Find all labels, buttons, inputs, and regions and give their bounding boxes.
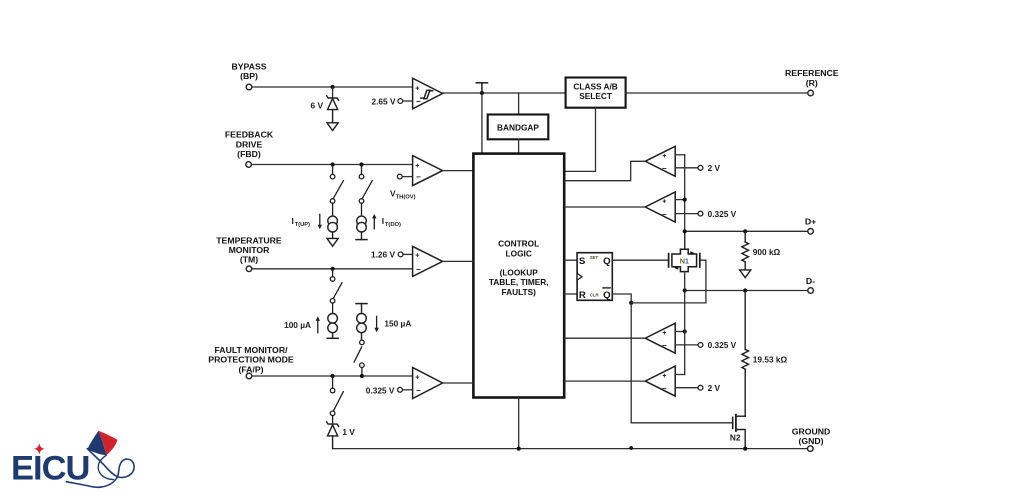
comparator U2 FBD xyxy=(413,156,443,186)
svg-text:R: R xyxy=(579,290,586,301)
resistor R1 900k xyxy=(742,231,749,269)
wire D- sense bus lower xyxy=(684,291,686,375)
svg-text:I: I xyxy=(382,216,384,226)
svg-text:(R): (R) xyxy=(806,78,818,88)
comparator U8 (0.325V D-) xyxy=(645,323,675,353)
wire 0.325V to comparator minus xyxy=(402,389,412,391)
node 1.26V source terminal xyxy=(398,252,403,257)
svg-text:−: − xyxy=(416,173,421,182)
junction control logic ground xyxy=(517,447,521,451)
block BANDGAP xyxy=(488,115,549,140)
svg-text:MONITOR: MONITOR xyxy=(229,245,271,255)
wire bandgap tap xyxy=(518,93,520,115)
svg-text:(TM): (TM) xyxy=(240,255,258,265)
zener diode VR2 1V xyxy=(327,422,339,449)
value label IT(UP) xyxy=(292,216,311,228)
svg-text:DRIVE: DRIVE xyxy=(236,139,263,149)
pin D- terminal xyxy=(808,288,814,294)
node BYPASS (BP) pin label xyxy=(231,62,266,82)
block CLASS A/B SELECT xyxy=(566,78,626,108)
svg-text:T(UP): T(UP) xyxy=(295,222,311,228)
svg-text:CLASS A/B: CLASS A/B xyxy=(573,81,617,91)
junction D+ sense bus xyxy=(683,229,687,233)
svg-text:FAULTS): FAULTS) xyxy=(501,287,536,297)
node FAULT MONITOR (FA/P) pin label xyxy=(208,345,294,374)
svg-text:1.26 V: 1.26 V xyxy=(371,250,395,260)
switch S5 xyxy=(330,376,343,424)
svg-text:BANDGAP: BANDGAP xyxy=(497,123,539,133)
supply rail tick above node A xyxy=(476,83,487,93)
node VTH(OV) source terminal xyxy=(397,174,402,179)
switch S1 xyxy=(330,165,343,217)
svg-text:T(DO): T(DO) xyxy=(385,222,401,228)
node FEEDBACK DRIVE (FBD) pin label xyxy=(225,130,274,159)
wire gate bus down to N2 xyxy=(631,303,733,423)
wire U6 plus to sense bus xyxy=(675,154,685,156)
wire U9 output to control logic xyxy=(565,380,645,382)
wire U6 minus stub xyxy=(675,167,698,169)
svg-text:+: + xyxy=(415,374,419,381)
comparator U9 (2V D-) xyxy=(645,366,675,396)
wire U8 minus stub xyxy=(675,344,698,346)
wire CLASS A/B select down to control logic xyxy=(565,108,596,172)
junction FA/P-switch S5 xyxy=(331,374,335,378)
svg-text:+: + xyxy=(662,330,666,337)
current source 150uA xyxy=(357,314,367,341)
node GROUND (GND) pin label xyxy=(792,426,831,446)
wire U8 plus to sense bus xyxy=(675,331,685,333)
svg-text:−: − xyxy=(416,386,421,395)
transistor N1 bilateral switch xyxy=(669,249,700,271)
node TEMPERATURE MONITOR (TM) pin label xyxy=(216,235,282,264)
wire U2 output to control logic xyxy=(443,170,473,172)
wire latch Qbar down to gate bus xyxy=(612,294,631,303)
svg-text:SET: SET xyxy=(590,255,599,260)
arrow IT(UP) down xyxy=(318,214,322,229)
current source IT(DO) xyxy=(356,216,367,240)
junction D- sense bus xyxy=(683,288,687,292)
svg-text:(GND): (GND) xyxy=(798,436,823,446)
svg-text:CONTROL: CONTROL xyxy=(498,239,539,249)
junction N2 source ground xyxy=(743,447,747,451)
zener diode VR1 6V xyxy=(327,96,339,123)
junction BP-zener xyxy=(331,85,335,89)
junction stray on ground bus xyxy=(629,446,633,450)
svg-text:2 V: 2 V xyxy=(708,383,721,393)
svg-text:Q: Q xyxy=(603,256,611,267)
wire VTH(OV) to comparator minus xyxy=(402,176,412,178)
pin D+ terminal xyxy=(808,229,814,235)
svg-text:−: − xyxy=(416,265,421,274)
wire TM line xyxy=(252,268,413,270)
svg-text:D+: D+ xyxy=(805,217,816,227)
svg-text:19.53 kΩ: 19.53 kΩ xyxy=(753,355,788,365)
svg-text:+: + xyxy=(662,199,666,206)
ground below VR1 xyxy=(327,123,338,131)
wire D- line xyxy=(685,290,808,292)
junction D- 19.53k xyxy=(743,288,747,292)
ground below R1 xyxy=(740,270,751,278)
latch U5 SR flip-flop xyxy=(577,253,612,301)
wire U8 output to control logic xyxy=(565,337,645,339)
pin GROUND terminal xyxy=(808,446,814,452)
svg-text:6 V: 6 V xyxy=(311,100,324,110)
resistor R2 19.53k xyxy=(742,291,749,417)
wire BANDGAP to control logic xyxy=(518,139,520,153)
svg-text:(BP): (BP) xyxy=(240,71,258,81)
svg-text:TEMPERATURE: TEMPERATURE xyxy=(216,235,282,245)
pin FA/P terminal xyxy=(246,373,252,379)
comparator U6 (2V D+) xyxy=(645,146,675,176)
pin TM terminal xyxy=(246,266,252,272)
logo kite tail xyxy=(67,449,135,488)
svg-text:CLR: CLR xyxy=(590,292,600,297)
svg-text:FEEDBACK: FEEDBACK xyxy=(225,130,274,140)
wire CLASS A/B to REFERENCE pin xyxy=(626,92,808,94)
arrow IT(DO) up xyxy=(372,214,376,229)
svg-text:0.325 V: 0.325 V xyxy=(366,385,395,395)
wire U7 plus to sense bus xyxy=(675,199,685,201)
wire N1 source to D- xyxy=(684,272,686,291)
node REFERENCE (R) pin label xyxy=(785,68,839,88)
wire 2.65V to comparator minus xyxy=(403,100,413,102)
arrow 100uA up xyxy=(316,316,320,332)
svg-text:N2: N2 xyxy=(730,432,741,442)
svg-text:SELECT: SELECT xyxy=(579,91,612,101)
svg-text:100 µA: 100 µA xyxy=(284,320,311,330)
wire 1.26V to comparator plus xyxy=(403,253,413,255)
wire U4 output to control logic xyxy=(443,382,473,384)
node 0.325V source terminal xyxy=(398,387,403,392)
svg-text:−: − xyxy=(662,384,667,393)
logo red star dot xyxy=(34,443,44,454)
svg-text:1 V: 1 V xyxy=(342,427,355,437)
node 0.325V source terminal (U7) xyxy=(698,211,703,216)
wire U7 output to control logic xyxy=(565,206,645,208)
logo kite navy half xyxy=(87,431,106,456)
wire BP line xyxy=(252,86,413,88)
wire FBD line xyxy=(251,164,412,166)
svg-text:LOGIC: LOGIC xyxy=(506,248,532,258)
switch S2 xyxy=(359,165,372,216)
arrow 150uA down xyxy=(374,316,378,332)
junction U7 plus on bus xyxy=(683,198,687,202)
svg-text:0.325 V: 0.325 V xyxy=(708,340,737,350)
junction D+ 900k xyxy=(743,229,747,233)
wire BP junction to zener VR1 xyxy=(332,87,334,98)
svg-text:Q: Q xyxy=(603,290,611,301)
svg-text:BYPASS: BYPASS xyxy=(231,62,266,72)
svg-text:PROTECTION MODE: PROTECTION MODE xyxy=(208,355,294,365)
node 2V source terminal (U9) xyxy=(698,385,703,390)
wire control logic to latch S xyxy=(565,259,577,261)
logo kite red half xyxy=(99,431,118,456)
wire D+ sense bus upper xyxy=(684,155,686,249)
value label IT(DO) xyxy=(382,216,401,228)
svg-text:−: − xyxy=(662,341,667,350)
wire latch Q to N1 left gate xyxy=(612,259,668,261)
wire U9 minus stub xyxy=(675,387,698,389)
wire control logic to latch R xyxy=(565,293,577,295)
block CONTROL LOGIC xyxy=(473,154,564,398)
wire D+ line xyxy=(685,230,808,232)
svg-text:+: + xyxy=(662,373,666,380)
comparator U1 BP overvoltage (schmitt) xyxy=(413,78,443,109)
svg-text:(FBD): (FBD) xyxy=(237,149,261,159)
svg-text:+: + xyxy=(415,253,419,260)
junction node A xyxy=(480,91,484,95)
logo kite tail inner strand xyxy=(98,455,113,479)
svg-text:+: + xyxy=(415,163,419,170)
wire control logic bottom to ground bus xyxy=(518,398,520,449)
svg-text:−: − xyxy=(662,164,667,173)
rail tick above 150uA source xyxy=(356,304,367,314)
wire U1 output to node A xyxy=(443,92,566,94)
svg-text:GROUND: GROUND xyxy=(792,426,831,436)
svg-text:2 V: 2 V xyxy=(708,163,721,173)
wire FA/P line xyxy=(252,375,413,377)
svg-text:+: + xyxy=(662,153,666,160)
wire N1 right gate link xyxy=(631,260,706,303)
value label VTH(OV) xyxy=(390,188,416,200)
junction U8 plus on bus xyxy=(683,329,687,333)
svg-text:REFERENCE: REFERENCE xyxy=(785,68,839,78)
svg-text:(LOOKUP: (LOOKUP xyxy=(500,268,539,278)
svg-text:I: I xyxy=(292,216,294,226)
svg-text:−: − xyxy=(662,210,667,219)
transistor N2 xyxy=(733,415,746,449)
svg-text:(FA/P): (FA/P) xyxy=(238,364,263,374)
svg-text:TABLE, TIMER,: TABLE, TIMER, xyxy=(489,277,549,287)
wire U3 output to control logic xyxy=(443,260,473,262)
svg-text:0.325 V: 0.325 V xyxy=(708,209,737,219)
junction TM-switch S3 xyxy=(331,267,335,271)
node 2.65V source terminal xyxy=(398,99,403,104)
svg-text:S: S xyxy=(579,256,586,267)
switch S4 xyxy=(354,340,364,374)
ground below IT(UP) xyxy=(327,238,338,246)
node 2V source terminal (U6) xyxy=(698,165,703,170)
svg-text:150 µA: 150 µA xyxy=(384,318,411,328)
wire U9 plus to sense bus xyxy=(675,374,685,376)
junction Qbar gate bus xyxy=(629,301,633,305)
svg-text:2.65 V: 2.65 V xyxy=(372,96,396,106)
wire U7 minus stub xyxy=(675,213,698,215)
junction FA/P-switch S4 xyxy=(360,374,364,378)
current source IT(UP) xyxy=(328,216,338,238)
wire U6 output to control logic xyxy=(565,161,645,180)
switch S3 xyxy=(330,269,342,314)
pin REFERENCE terminal xyxy=(808,90,814,96)
comparator U3 TM xyxy=(413,246,443,276)
svg-text:EICU: EICU xyxy=(11,449,89,487)
current source 100uA xyxy=(327,314,338,339)
svg-text:D-: D- xyxy=(806,276,815,286)
node 0.325V source terminal (U8) xyxy=(698,343,703,348)
pin FBD terminal xyxy=(246,162,252,168)
svg-text:+: + xyxy=(415,85,419,92)
svg-text:900 kΩ: 900 kΩ xyxy=(753,247,781,257)
svg-text:FAULT MONITOR/: FAULT MONITOR/ xyxy=(214,345,288,355)
junction FBD-switch S2 xyxy=(359,162,363,166)
wire ground bus xyxy=(333,448,808,450)
junction FBD-switch S1 xyxy=(331,162,335,166)
svg-text:N1: N1 xyxy=(680,257,689,266)
wire node A down into control logic xyxy=(481,93,483,154)
comparator U4 FA/P xyxy=(413,368,443,399)
wire N1 drain to D+ xyxy=(684,231,686,249)
pin BP terminal xyxy=(246,84,252,90)
svg-text:TH(OV): TH(OV) xyxy=(396,194,416,200)
comparator U7 (0.325V D+) xyxy=(645,192,675,222)
